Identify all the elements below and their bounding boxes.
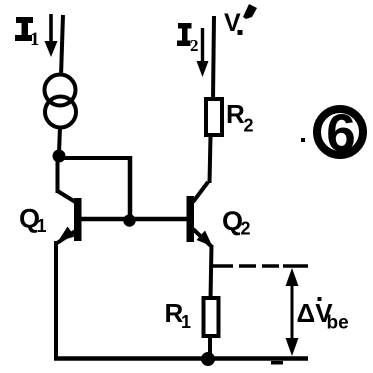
node B junction dot on base wire <box>123 214 135 226</box>
wire node A down to Q1 collector <box>56 158 60 193</box>
svg-text:2: 2 <box>190 36 199 55</box>
figure number 6 circled <box>317 104 363 163</box>
label I2 <box>177 23 199 55</box>
wire current source to node A <box>59 127 60 153</box>
current source I1 (two circles) <box>45 75 77 128</box>
resistor R1 <box>204 298 219 336</box>
node A junction dot <box>53 150 66 163</box>
wire Q2 emitter to R1 <box>211 245 212 299</box>
svg-text:1: 1 <box>37 216 47 236</box>
label V supply terminal <box>224 4 257 37</box>
node C junction dot on ground rail <box>201 352 215 366</box>
transistor Q2 <box>187 182 213 247</box>
speck left of circle <box>301 138 305 142</box>
wire top-left supply to current source <box>61 15 63 76</box>
wire node A to base drop <box>59 156 131 160</box>
resistor R2 <box>206 99 222 135</box>
svg-text:6: 6 <box>326 104 355 163</box>
label Q2 <box>222 206 251 239</box>
wire R2 to supply V <box>213 16 214 99</box>
wire drop to base rail <box>128 156 133 219</box>
label R1 <box>165 298 192 332</box>
svg-text:1: 1 <box>181 312 191 332</box>
label delta Vbe <box>297 297 349 334</box>
svg-text:R: R <box>226 99 245 129</box>
svg-text:1: 1 <box>30 29 40 50</box>
current arrow I2 <box>197 28 209 77</box>
wire R1 to ground rail <box>208 336 212 359</box>
dimension arrow delta Vbe <box>286 268 299 356</box>
label R2 <box>226 99 254 136</box>
label I1 <box>15 17 40 50</box>
current arrow I1 <box>45 14 58 57</box>
speck below ground rail <box>271 361 283 365</box>
svg-text:2: 2 <box>241 219 251 239</box>
ground rail <box>54 356 308 361</box>
base wire Q1 to Q2 <box>79 217 188 222</box>
wire Q1 emitter to ground rail <box>54 241 58 360</box>
transistor Q1 <box>57 191 82 243</box>
wire Q2 collector to R2 <box>210 136 211 183</box>
dashed reference line from Q2 emitter <box>212 264 308 268</box>
svg-text:2: 2 <box>244 116 254 136</box>
label Q1 <box>19 204 47 237</box>
svg-text:be: be <box>327 313 349 334</box>
